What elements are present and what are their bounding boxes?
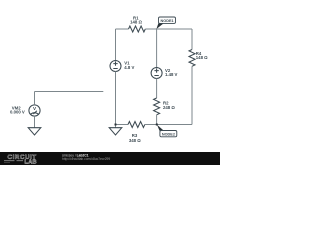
wire voltmeter up xyxy=(34,92,36,105)
svg-text:NODE2: NODE2 xyxy=(162,133,175,137)
voltage source V1 xyxy=(110,61,121,72)
resistor R4 xyxy=(189,50,195,67)
junction dot bottom-left xyxy=(115,124,117,126)
svg-text:NODE1: NODE1 xyxy=(161,19,174,23)
wire middle branch below R2 xyxy=(156,115,158,125)
wire top from R1 to node1 junction xyxy=(145,28,156,30)
wire right branch lower xyxy=(191,66,193,124)
svg-text:0.000 V: 0.000 V xyxy=(10,110,25,115)
svg-text:http://circuitlab.com/c8uc7ecr: http://circuitlab.com/c8uc7ecr299 xyxy=(62,157,110,161)
svg-text:148 Ω: 148 Ω xyxy=(130,20,142,25)
node label NODE2 xyxy=(157,125,177,137)
junction dot node2 xyxy=(156,124,158,126)
footer bar xyxy=(0,152,220,165)
ground (voltmeter) xyxy=(28,128,41,135)
resistor R2 xyxy=(154,98,160,115)
svg-text:348 Ω: 348 Ω xyxy=(129,138,141,143)
node label NODE1 xyxy=(156,17,175,29)
svg-text:4.8 V: 4.8 V xyxy=(124,65,134,70)
voltmeter VM2 xyxy=(29,105,40,116)
wire voltmeter horizontal stub xyxy=(35,91,104,93)
svg-text:1.48 V: 1.48 V xyxy=(165,72,178,77)
resistor R1 xyxy=(129,26,146,32)
voltage source V2 xyxy=(151,68,162,79)
wire top from left corner to R1 xyxy=(116,28,129,30)
svg-text:LAB: LAB xyxy=(25,159,37,165)
wire voltmeter down to ground xyxy=(34,116,36,128)
resistor R3 xyxy=(128,122,145,128)
wire middle branch upper xyxy=(156,29,158,68)
wire middle branch between V2 and R2 xyxy=(156,79,158,99)
wire bottom from R3 to node2 xyxy=(145,124,157,126)
ground (main circuit) xyxy=(109,125,122,136)
wire bottom from node2 to right corner xyxy=(157,124,192,126)
wire bottom left segment xyxy=(116,124,129,126)
svg-text:248 Ω: 248 Ω xyxy=(163,105,175,110)
wire left branch upper xyxy=(115,29,117,61)
wire top from node1 to right corner xyxy=(157,28,192,30)
svg-text:148 Ω: 148 Ω xyxy=(196,55,208,60)
wire left branch lower xyxy=(115,72,117,125)
wire right branch upper xyxy=(191,29,193,50)
